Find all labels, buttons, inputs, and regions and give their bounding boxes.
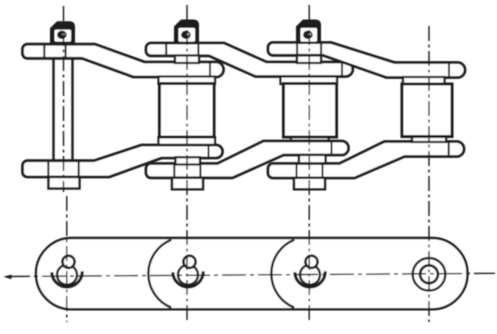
roller at pin 4	[402, 84, 452, 137]
pin 3 lower end block (cotter seat)	[294, 178, 325, 190]
arrowhead on horizontal centerline (left end)	[4, 275, 12, 280]
inner bar end cap joint line, pin 2 upper	[209, 62, 211, 77]
washer under upper plate, pin 2	[175, 56, 199, 64]
bushing flange lower, pin 3	[291, 135, 329, 141]
inner bar end cap joint line, pin 2 lower	[208, 145, 210, 158]
pin 2 vertical centerline	[186, 5, 188, 322]
pin 1 lower plate joint lines	[48, 161, 78, 177]
pin 2 upper plate joint lines	[166, 43, 198, 56]
pin 1 vertical centerline (plan view)	[66, 196, 68, 322]
roller at pin 3	[284, 84, 337, 138]
bushing flange upper, pin 3	[281, 77, 338, 85]
pin 1 vertical centerline (side view)	[63, 6, 65, 192]
bushing flange lower, pin 2	[159, 137, 216, 145]
lower sidebar link C (cranked plate, pin 3 to pin 4)	[268, 142, 464, 179]
inner bar end cap joint line, pin 4 lower	[448, 142, 450, 157]
washer above lower plate, pin 3	[299, 155, 326, 163]
roller at pin 2	[160, 84, 215, 138]
lower sidebar link A (cranked plate, pin 1 to pin 2)	[23, 145, 223, 177]
plan view arc: wide end of link B at pin 2	[148, 240, 171, 308]
upper sidebar link B (cranked plate, pin 2 to pin 3)	[146, 43, 353, 77]
upper sidebar link A (cranked plate, pin 1 to pin 2)	[23, 44, 224, 77]
bushing flange upper, pin 2	[159, 77, 216, 85]
pin 4 vertical centerline	[428, 26, 430, 322]
inner bar end cap joint line, pin 3 upper	[341, 62, 343, 77]
pin 1 lower end block (cotter seat)	[49, 177, 80, 189]
cotter pin end view at pin 1 (plan)	[52, 256, 82, 287]
chain plan view outline (stadium silhouette)	[36, 238, 468, 309]
pin 2 lower end block (cotter seat)	[172, 178, 203, 190]
washer under upper plate, pin 3	[297, 56, 321, 64]
cotter pin head at pin 3 (side view)	[297, 21, 320, 44]
pin 3 vertical centerline	[308, 5, 310, 322]
cotter pin end view at pin 3 (plan)	[295, 256, 325, 287]
pin 4 end view inner circle (plan)	[420, 265, 438, 283]
washer above lower plate, pin 2	[176, 157, 201, 164]
cotter pin head at pin 2 (side view)	[175, 21, 198, 44]
bushing flange lower, pin 4	[412, 137, 446, 143]
pin 4 end view outer circle (plan)	[413, 258, 446, 291]
pin 3 lower plate joint lines	[297, 164, 323, 178]
inner bar end cap joint line, pin 3 lower	[331, 141, 333, 155]
plan view horizontal centerline	[6, 273, 495, 276]
plan view arc: wide end of link C at pin 3	[271, 240, 294, 308]
upper sidebar link C (cranked plate, pin 3 to pin 4)	[268, 43, 465, 78]
pin 1 body (exposed pin, two vertical edges)	[54, 58, 73, 160]
lower sidebar link B (cranked plate, pin 2 to pin 3)	[146, 141, 349, 178]
pin 2 lower plate joint lines	[174, 164, 200, 178]
pin 1 upper plate joint lines	[44, 44, 65, 58]
cotter pin end view at pin 2 (plan)	[173, 256, 203, 287]
bushing flange upper, pin 4	[403, 77, 445, 85]
inner bar end cap joint line, pin 4 upper	[448, 63, 450, 78]
cotter pin head at pin 1 (side view)	[51, 22, 74, 43]
pin 3 upper plate joint lines	[297, 43, 321, 56]
